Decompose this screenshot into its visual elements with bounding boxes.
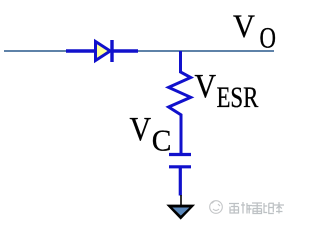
svg-text:V: V [130, 109, 152, 147]
svg-text:V: V [195, 66, 217, 104]
svg-text:O: O [260, 20, 276, 54]
svg-text:ESR: ESR [217, 80, 259, 114]
svg-text:V: V [233, 8, 255, 44]
svg-text:C: C [152, 123, 172, 158]
